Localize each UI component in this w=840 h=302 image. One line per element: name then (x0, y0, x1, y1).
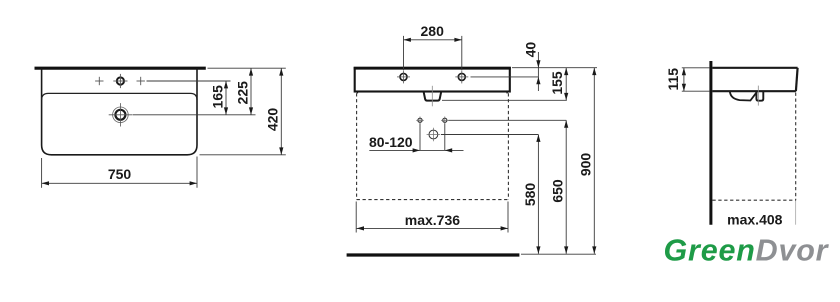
svg-text:80-120: 80-120 (369, 134, 413, 150)
dimension 155 (565, 68, 567, 101)
hidden outline left (dashed) (356, 93, 358, 199)
svg-text:750: 750 (108, 166, 132, 182)
extension: waste outlet to 580 dim (441, 134, 538, 136)
dimension 900 (593, 68, 595, 254)
extension down right (max.736) (507, 202, 509, 233)
extension line from front edge to 420 dim (200, 154, 286, 156)
dimension 750 (42, 182, 197, 184)
svg-text:280: 280 (421, 23, 445, 39)
dimension 225 (250, 68, 252, 115)
extension: right hole to 40 dim (471, 76, 539, 78)
svg-text:165: 165 (209, 85, 225, 109)
extension: supply to 650 dim (449, 119, 567, 121)
drain outlet trapezoid (front) (424, 92, 442, 101)
waste outlet circle (429, 130, 438, 139)
water supply point right (443, 118, 447, 122)
dimension 580 (537, 135, 539, 254)
basin side profile bottom (712, 90, 796, 92)
floor extension line (521, 253, 596, 255)
basin side profile top (712, 67, 797, 69)
svg-text:115: 115 (665, 68, 681, 91)
dimension 650 (565, 120, 567, 254)
washbasin plan view: inner rim line (42, 93, 197, 100)
right faucet hole (front) (458, 73, 465, 80)
hidden outline bottom (dashed) (357, 199, 509, 201)
extension: outlet bottom to 155 dim (442, 99, 567, 101)
dimension 165 (225, 81, 227, 115)
extension down left (max.736) (355, 202, 357, 233)
dimension 280 (404, 39, 462, 41)
washbasin front view: body outline (355, 68, 510, 92)
extension down from right supply (444, 124, 446, 151)
extension line from back edge to 420 dim (208, 67, 286, 69)
svg-text:max.736: max.736 (405, 212, 460, 228)
svg-text:580: 580 (522, 183, 538, 207)
extension line from faucet to 165 dim (147, 80, 231, 82)
front view foot mark left (356, 92, 358, 94)
hidden outline right (dashed) (507, 93, 509, 199)
svg-text:40: 40 (522, 42, 538, 58)
extension line up from left hole (403, 36, 405, 70)
dimension max.736 (357, 227, 508, 229)
drain centerline (front) (431, 86, 433, 107)
left faucet hole (front) (400, 73, 407, 80)
drain hole (plan) (115, 110, 125, 120)
optional tap hole mark left (plus) (95, 80, 103, 82)
extension: basin top to 115 dim (682, 67, 710, 69)
extension down from left supply (419, 124, 421, 151)
extension: basin top to right dims (512, 67, 597, 69)
dimension 420 (280, 68, 282, 155)
extension line below left edge (750) (41, 158, 43, 188)
extension line below right edge (750) (196, 157, 198, 188)
hidden front edge (dashed) (795, 93, 797, 201)
max.408 dashed dimension line (712, 199, 795, 201)
dimension 115 (683, 68, 685, 91)
extension below hidden edge (795, 200, 797, 225)
svg-text:900: 900 (578, 153, 594, 177)
extension: basin bottom to 115 dim (682, 90, 710, 92)
extension line from drain to 225 dim (133, 114, 256, 116)
svg-text:650: 650 (550, 179, 566, 203)
drain stub (side) (756, 91, 763, 101)
dimension 80-120 (369, 149, 463, 151)
basin side profile front edge (796, 68, 798, 91)
dimension 40 (537, 52, 539, 91)
svg-text:420: 420 (265, 108, 281, 132)
drain centerline (side) (757, 86, 759, 106)
svg-text:max.408: max.408 (727, 212, 782, 228)
optional tap hole mark right (plus) (137, 80, 145, 82)
wall line (side view) (709, 61, 712, 225)
svg-text:155: 155 (549, 71, 565, 95)
svg-text:GreenDvor: GreenDvor (664, 234, 830, 268)
washbasin plan view: back wall edge (thick) (35, 67, 206, 70)
washbasin plan view: outer outline (42, 68, 197, 155)
water supply point left (418, 118, 422, 122)
front view foot mark right (506, 92, 508, 94)
extension line up from right hole (461, 36, 463, 70)
bowl underside curve (side) (730, 91, 757, 100)
faucet hole (plan) (117, 77, 124, 84)
floor line (thick) (347, 253, 520, 256)
svg-text:225: 225 (234, 81, 250, 105)
